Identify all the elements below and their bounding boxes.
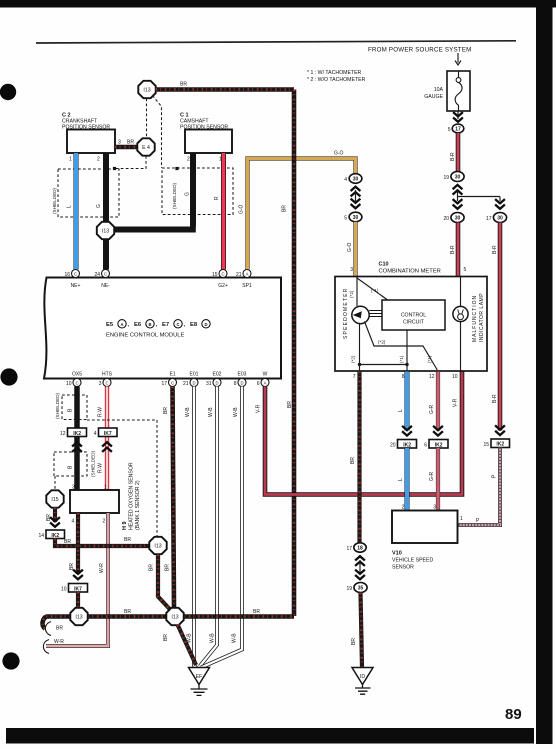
svg-text:V-R: V-R	[453, 398, 459, 407]
svg-text:17: 17	[161, 381, 167, 387]
svg-text:IK2: IK2	[496, 442, 504, 448]
svg-text:BR: BR	[69, 563, 75, 570]
svg-text:D: D	[240, 381, 243, 386]
svg-text:COMBINATION METER: COMBINATION METER	[379, 269, 441, 275]
svg-text:E03: E03	[238, 372, 247, 378]
wire R C1-1 to ECM G2+	[214, 153, 224, 270]
svg-text:BR: BR	[124, 537, 131, 543]
svg-text:G: G	[185, 192, 191, 196]
arrow into IK2 14	[50, 517, 60, 527]
svg-text:D: D	[215, 381, 218, 386]
wire L meter pin 8 to IK2 20	[398, 372, 407, 431]
svg-text:(*1): (*1)	[399, 355, 404, 363]
svg-text:E6: E6	[134, 322, 142, 328]
svg-text:7: 7	[353, 374, 356, 380]
svg-text:I13: I13	[154, 544, 161, 550]
svg-text:* 2 : W/O TACHOMETER: * 2 : W/O TACHOMETER	[307, 77, 366, 83]
meter C10 combination meter box	[335, 262, 487, 372]
svg-text:19: 19	[443, 175, 449, 181]
svg-text:I13: I13	[75, 615, 82, 621]
svg-text:BR: BR	[163, 634, 169, 641]
svg-text:2: 2	[103, 519, 106, 525]
svg-text:W-B: W-B	[185, 407, 191, 417]
shield drain dash to I15	[54, 476, 56, 491]
svg-text:R-W: R-W	[98, 407, 104, 417]
wire G-O connector 30-5 to meter pin 3	[347, 222, 356, 277]
sensor H9 heated oxygen sensor box	[70, 485, 119, 525]
ECM pin E03 8 D	[234, 372, 247, 388]
ECM pin E01 21 D	[183, 372, 199, 388]
svg-text:(*2): (*2)	[349, 290, 354, 298]
svg-text:30: 30	[353, 215, 359, 221]
junction connector IK2 pin 12	[60, 428, 87, 437]
svg-text:SPEEDOMETER: SPEEDOMETER	[343, 287, 349, 339]
svg-text:CONTROL: CONTROL	[401, 313, 426, 319]
svg-text:W-B: W-B	[232, 633, 238, 643]
svg-text:5: 5	[448, 127, 451, 133]
svg-text:SENSOR: SENSOR	[392, 565, 414, 571]
wire W-R H9 pin 2 down and left to break	[43, 513, 108, 654]
arrow into connector 17	[453, 112, 463, 122]
arrow into IK2 20	[402, 426, 412, 436]
junction connector IK2 pin 20	[390, 440, 417, 449]
shield box on B wire upper	[55, 392, 87, 419]
ECM pin NE- 24 C	[94, 270, 110, 290]
svg-text:SP1: SP1	[242, 283, 252, 289]
svg-text:5: 5	[464, 267, 467, 273]
svg-text:(*2): (*2)	[378, 340, 386, 345]
svg-text:24: 24	[94, 272, 100, 278]
connector I13 top	[138, 81, 155, 98]
svg-text:2: 2	[97, 157, 100, 163]
wire L IK2 to V10 pin 2	[398, 448, 407, 511]
svg-text:FROM POWER SOURCE SYSTEM: FROM POWER SOURCE SYSTEM	[368, 47, 471, 54]
svg-text:30: 30	[455, 175, 461, 181]
svg-text:L: L	[398, 478, 404, 481]
junction connector IK7 pin 10	[61, 584, 88, 593]
svg-text:(SHIELDED): (SHIELDED)	[55, 392, 60, 419]
wire B ECM OX5 to H9 pin 3	[68, 387, 78, 491]
wire L C2-1 to ECM NE+	[67, 153, 77, 270]
svg-text:19: 19	[346, 586, 352, 592]
connector 30 pin 17	[486, 213, 507, 223]
wire BR meter pin 7 down to connector 18	[350, 372, 360, 543]
svg-text:BR: BR	[165, 564, 171, 571]
arrow into IK7 10	[73, 570, 83, 580]
meter internal wiring speedometer outputs	[351, 322, 438, 372]
svg-text:A: A	[264, 381, 267, 386]
svg-text:EF: EF	[196, 674, 203, 680]
svg-text:C: C	[171, 381, 174, 386]
svg-text:D: D	[192, 381, 195, 386]
wire B-R fuse to connector 30	[450, 133, 458, 172]
label H9 heated oxygen sensor	[122, 462, 141, 530]
svg-text:BR: BR	[351, 638, 357, 645]
connector 30 pin 19	[443, 172, 464, 182]
svg-text:G2+: G2+	[218, 283, 228, 289]
svg-text:4: 4	[344, 177, 347, 183]
svg-text:G-O: G-O	[239, 204, 245, 214]
svg-text:16: 16	[64, 272, 70, 278]
svg-text:H 9: H 9	[122, 521, 128, 530]
svg-text:C: C	[176, 322, 179, 327]
svg-text:(SHIELDED): (SHIELDED)	[172, 182, 177, 209]
svg-text:B: B	[148, 322, 151, 327]
svg-text:NE+: NE+	[71, 283, 81, 289]
fuse 10A GAUGE	[424, 71, 470, 111]
svg-text:IK2: IK2	[403, 442, 411, 448]
svg-text:I13: I13	[171, 615, 178, 621]
page border right bar	[536, 0, 553, 744]
svg-text:ENGINE CONTROL MODULE: ENGINE CONTROL MODULE	[106, 333, 185, 339]
svg-text:21: 21	[236, 272, 242, 278]
svg-text:B-R: B-R	[492, 394, 498, 403]
svg-text:L: L	[398, 409, 404, 412]
connector 30 pin 4	[344, 174, 362, 184]
ECM pin E1 17 C	[161, 372, 176, 388]
svg-text:G: G	[96, 204, 102, 208]
svg-text:G-O: G-O	[347, 242, 353, 252]
svg-text:W-R: W-R	[99, 563, 105, 573]
ECM engine control module box	[44, 278, 281, 379]
svg-text:MALFUNCTION: MALFUNCTION	[472, 295, 478, 342]
wire G-R meter pin 12 to IK2 6	[429, 372, 438, 431]
connector I15	[46, 490, 63, 507]
svg-text:(SHIELDED): (SHIELDED)	[52, 187, 57, 214]
svg-text:15: 15	[483, 442, 489, 448]
ECM pin G2+ 15 C	[212, 270, 228, 290]
svg-text:(SHIELDED): (SHIELDED)	[91, 450, 96, 477]
svg-text:B-R: B-R	[450, 245, 456, 254]
sensor C1 camshaft position sensor	[180, 113, 232, 163]
svg-text:18: 18	[357, 546, 363, 552]
svg-text:W: W	[263, 372, 268, 378]
hole punch bottom	[2, 652, 19, 669]
wire BR IK7-10 to I13	[76, 592, 80, 608]
svg-text:12: 12	[429, 374, 435, 380]
ECM pin W 6 A	[257, 372, 269, 388]
wire BR I13 to ground EF	[163, 625, 196, 666]
svg-text:31: 31	[206, 381, 212, 387]
svg-text:17: 17	[346, 546, 352, 552]
svg-text:BR: BR	[64, 539, 71, 545]
svg-text:I13: I13	[102, 229, 109, 235]
wire W-B ECM E03 to ground	[201, 387, 242, 668]
svg-text:R-W: R-W	[98, 463, 104, 473]
svg-text:A: A	[120, 322, 123, 327]
link 30-4 to 30-5	[351, 187, 361, 209]
svg-text:89: 89	[505, 706, 522, 723]
svg-text:I15: I15	[51, 497, 58, 503]
arrow up into IK2 12	[72, 442, 82, 452]
svg-text:BR: BR	[149, 564, 155, 571]
svg-text:2: 2	[187, 157, 190, 163]
svg-text:21: 21	[183, 381, 189, 387]
pin 3 label and BR stub C2 to E4	[115, 140, 138, 148]
svg-text:E8: E8	[190, 322, 198, 328]
top rule line	[36, 41, 516, 43]
svg-text:3: 3	[72, 485, 75, 491]
svg-text:4: 4	[72, 519, 75, 525]
svg-text:12: 12	[60, 431, 66, 437]
svg-text:1: 1	[69, 157, 72, 163]
svg-text:C: C	[75, 381, 78, 386]
shield box on B wire lower	[54, 450, 96, 477]
wire BR IK2-14 to junction with H9 pin 4 wire	[55, 537, 150, 546]
wire BR ECM E1 down to junction I13	[163, 387, 174, 608]
wire BR I13 drain down to junction I13	[149, 555, 172, 612]
svg-text:10A: 10A	[434, 87, 444, 93]
hole punch middle	[0, 368, 17, 385]
svg-text:4: 4	[94, 431, 97, 437]
svg-text:E7: E7	[162, 322, 169, 328]
junction connector I13 right on bottom BR	[166, 608, 183, 625]
svg-text:* 1 : W/ TACHOMETER: * 1 : W/ TACHOMETER	[307, 70, 362, 76]
connector 18 pin 17	[346, 543, 366, 552]
ECM pin HTS 3 C	[99, 372, 113, 388]
svg-text:IK2: IK2	[51, 533, 59, 539]
svg-text:W-B: W-B	[208, 407, 214, 417]
svg-text:30: 30	[353, 177, 359, 183]
svg-text:C: C	[104, 272, 107, 277]
wire G C2-2 down to I13	[96, 153, 106, 222]
shield drain dashes to I13	[87, 420, 157, 536]
wire G-O ECM SP1 up and over to connector 30-4	[239, 151, 356, 270]
svg-text:IK7: IK7	[74, 586, 82, 592]
svg-text:G-R: G-R	[429, 471, 435, 481]
svg-text:6: 6	[424, 443, 427, 449]
svg-text:20: 20	[443, 216, 449, 222]
svg-text:BR: BR	[350, 457, 356, 464]
split line to connectors 20/17	[453, 185, 505, 209]
connector 30 pin 20	[443, 213, 464, 223]
svg-text:E5: E5	[106, 322, 114, 328]
shield drain dashes I13 to E4 and to C1 shield	[113, 96, 179, 171]
wire BR I13 horizontal to corner	[156, 82, 295, 90]
svg-text:BR: BR	[127, 140, 134, 146]
svg-text:W-R: W-R	[54, 639, 64, 645]
svg-text:10: 10	[61, 587, 67, 593]
svg-text:CIRCUIT: CIRCUIT	[403, 320, 425, 326]
svg-text:W-B: W-B	[210, 633, 216, 643]
svg-text:30: 30	[455, 216, 461, 222]
svg-text:20: 20	[390, 443, 396, 449]
svg-text:14: 14	[38, 533, 44, 539]
svg-text:ID: ID	[360, 674, 365, 680]
svg-text:IK7: IK7	[104, 431, 112, 437]
arrow into IK2 6	[433, 426, 443, 436]
arrow up into IK7 4	[102, 442, 112, 452]
connector E4	[137, 138, 154, 155]
control circuit box	[382, 300, 445, 330]
svg-text:BR: BR	[124, 609, 131, 615]
svg-text:15: 15	[212, 272, 218, 278]
svg-text:E1: E1	[169, 372, 175, 378]
junction connector IK2 pin 6	[424, 440, 448, 449]
junction connector IK2 pin 14	[38, 530, 64, 539]
svg-text:W-B: W-B	[233, 407, 239, 417]
wire BR vertical right side down to bottom	[282, 90, 295, 617]
wire W-B ECM E02 to ground	[200, 387, 218, 667]
svg-text:G-R: G-R	[429, 404, 435, 414]
svg-text:INDICATOR LAMP: INDICATOR LAMP	[479, 293, 485, 342]
wire BR bottom horizontal with break	[43, 609, 294, 636]
svg-text:BR: BR	[56, 626, 63, 632]
svg-text:HEATED OXYGEN SENSOR: HEATED OXYGEN SENSOR	[129, 462, 135, 530]
ECM pin OX5 10 C	[66, 372, 82, 388]
svg-text:VEHICLE SPEED: VEHICLE SPEED	[392, 558, 433, 564]
svg-text:D: D	[204, 322, 207, 327]
svg-text:IK2: IK2	[73, 431, 81, 437]
svg-text:V-R: V-R	[256, 404, 262, 413]
malfunction indicator lamp	[453, 293, 485, 342]
svg-text:OX5: OX5	[72, 372, 82, 378]
meter bottom pin labels	[353, 374, 458, 380]
svg-text:BR: BR	[253, 609, 260, 615]
svg-text:10: 10	[66, 381, 72, 387]
svg-text:BR: BR	[163, 407, 169, 414]
svg-text:NE-: NE-	[101, 283, 110, 289]
wire G C1-2 to junction	[114, 153, 196, 230]
connector 35 pin 19	[346, 583, 367, 593]
svg-text:R: R	[214, 196, 220, 200]
hole punch top	[0, 84, 16, 100]
meter internal wiring from pin 3	[349, 277, 389, 307]
svg-text:BR: BR	[282, 205, 288, 212]
junction connector IK2 pin 15	[483, 439, 509, 448]
svg-text:1: 1	[104, 485, 107, 491]
svg-text:3: 3	[433, 505, 436, 511]
junction connector I13 left on bottom BR	[70, 608, 87, 625]
arrow from power source	[455, 53, 461, 65]
wire fuse to connector 17	[457, 111, 459, 119]
svg-text:(*2): (*2)	[351, 355, 356, 363]
page border bottom bar	[6, 728, 534, 744]
svg-text:35: 35	[358, 586, 364, 592]
sensor C2 crankshaft position sensor	[62, 113, 115, 163]
shield box C1	[162, 168, 233, 215]
svg-text:1: 1	[460, 516, 463, 522]
ECM pin E02 31 D	[206, 372, 222, 388]
ground ID	[352, 668, 373, 695]
wire BR connector 35 to ground ID	[351, 593, 362, 668]
svg-text:8: 8	[402, 374, 405, 380]
wire G I13 to ECM NE-	[103, 240, 109, 270]
svg-text:I13: I13	[143, 88, 150, 94]
wire R-W ECM HTS to H9 pin 1	[98, 387, 108, 491]
svg-text:(*1): (*1)	[371, 288, 379, 293]
wire W-B ECM E01 to ground	[185, 387, 197, 669]
speedometer symbol	[343, 287, 382, 339]
svg-text:BR: BR	[180, 82, 187, 88]
wire V-R ECM W to meter pin 10	[256, 372, 463, 495]
svg-text:C: C	[74, 272, 77, 277]
wire BR H9 pin 4 down to IK7 10	[69, 513, 78, 574]
svg-text:GAUGE: GAUGE	[424, 94, 443, 100]
wire P IK2 to V10 pin 1	[458, 448, 500, 526]
connector I13 on G wire	[97, 222, 114, 239]
wire BR I15 to IK2 14	[46, 508, 55, 523]
svg-text:30: 30	[497, 216, 503, 222]
svg-text:10: 10	[452, 374, 458, 380]
svg-text:E 4: E 4	[142, 145, 150, 151]
sensor V10 vehicle speed sensor box	[392, 505, 458, 571]
svg-text:HTS: HTS	[102, 372, 113, 378]
svg-text:17: 17	[455, 127, 461, 133]
svg-text:3: 3	[99, 381, 102, 387]
svg-text:8: 8	[234, 381, 237, 387]
meter internal wire pin5 to lamp to pin 10	[460, 277, 462, 372]
page border top bar	[0, 0, 556, 8]
svg-text:17: 17	[486, 216, 492, 222]
svg-text:(BANK 1 SENSOR 2): (BANK 1 SENSOR 2)	[135, 480, 141, 530]
svg-text:(*1): (*1)	[427, 355, 432, 363]
wire G-R IK2 to V10 pin 3	[429, 448, 438, 511]
connector 30 pin 5	[344, 212, 362, 222]
svg-text:V10: V10	[392, 551, 402, 557]
link 18 to 35	[355, 556, 365, 579]
svg-text:E02: E02	[213, 372, 222, 378]
wire B-R connector 17 to IK2 pin 15	[492, 223, 500, 431]
svg-text:G-O: G-O	[334, 151, 344, 157]
svg-text:C10: C10	[379, 262, 389, 268]
ECM connector list E5 A E6 B E7 C E8 D	[106, 320, 210, 328]
ECM pin SP1 21 A	[236, 270, 252, 290]
shield box C2	[52, 169, 119, 217]
svg-text:B-R: B-R	[492, 245, 498, 254]
svg-text:A: A	[246, 272, 249, 277]
svg-text:2: 2	[402, 505, 405, 511]
svg-text:E01: E01	[190, 372, 199, 378]
svg-text:C: C	[105, 381, 108, 386]
svg-text:B-R: B-R	[450, 152, 456, 161]
ECM pin NE+ 16 C	[64, 270, 80, 290]
svg-text:3: 3	[350, 267, 353, 273]
svg-text:6: 6	[257, 381, 260, 387]
ground EF	[189, 668, 210, 696]
arrow into IK2 15	[495, 425, 505, 435]
svg-text:C: C	[221, 272, 224, 277]
svg-text:L: L	[67, 205, 73, 208]
svg-text:BR: BR	[287, 401, 293, 408]
wire B-R connector 20 to meter pin 5	[450, 223, 458, 277]
connector I13 on shield drain	[149, 537, 166, 554]
svg-text:3: 3	[118, 140, 121, 146]
svg-text:5: 5	[344, 216, 347, 222]
connector 17 pin 5	[448, 124, 464, 133]
svg-text:IK2: IK2	[435, 442, 443, 448]
junction connector IK7 pin 4	[94, 428, 117, 437]
